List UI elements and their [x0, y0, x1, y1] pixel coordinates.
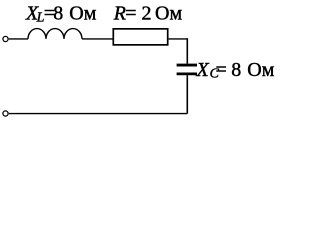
- capacitor C (X_C) top plate: [177, 64, 197, 67]
- svg-text:Ом: Ом: [155, 2, 182, 24]
- inductor L (X_L): [28, 29, 82, 39]
- resistor R: [113, 29, 167, 45]
- svg-text:Ом: Ом: [247, 59, 274, 81]
- wire: down to capacitor: [186, 38, 188, 63]
- label XC= 8 Ом: [196, 59, 275, 82]
- label R= 2 Ом: [113, 2, 183, 24]
- input terminal (bottom): [3, 111, 8, 116]
- svg-text:=: =: [125, 2, 136, 24]
- svg-text:8: 8: [53, 3, 63, 25]
- capacitor C (X_C) bottom plate: [177, 72, 197, 75]
- wire: bottom rail: [9, 113, 188, 115]
- svg-text:=: =: [216, 59, 227, 81]
- label XL=8 Ом: [25, 3, 97, 26]
- svg-text:8: 8: [231, 59, 241, 81]
- svg-text:2: 2: [142, 2, 152, 24]
- svg-text:R: R: [113, 2, 126, 24]
- wire: inductor to resistor: [82, 38, 113, 40]
- wire: capacitor down to bottom rail: [186, 75, 188, 113]
- svg-text:X: X: [196, 59, 210, 81]
- input terminal (top): [3, 36, 8, 41]
- wire: top terminal to inductor: [9, 38, 28, 40]
- wire: resistor to right corner: [169, 38, 188, 40]
- svg-text:Ом: Ом: [69, 3, 96, 25]
